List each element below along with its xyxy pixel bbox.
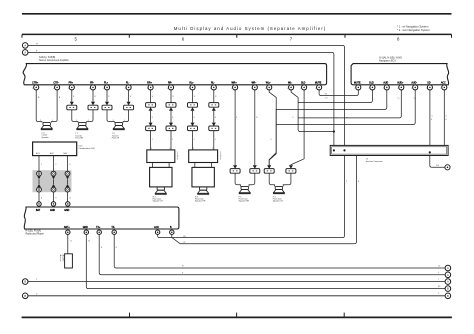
svg-text:8: 8	[346, 181, 347, 183]
svg-text:10: 10	[438, 265, 440, 267]
svg-text:4: 4	[89, 88, 90, 90]
noise filter with arrow (Front RH left)	[67, 102, 77, 110]
bottom ruler ticks	[130, 313, 345, 318]
svg-text:4: 4	[103, 88, 104, 90]
wire amp pin to noise filter (x=128.6)	[128, 90, 130, 102]
svg-text:SAU: SAU	[63, 152, 68, 155]
svg-text:CTR+: CTR+	[32, 82, 39, 84]
svg-text:*1: *1	[431, 116, 433, 118]
svg-text:Stereo Component Amplifier: Stereo Component Amplifier	[39, 59, 69, 62]
connector circle A2 (from previous page)	[22, 50, 28, 56]
svg-text:Speaker: Speaker	[42, 136, 49, 139]
tweeter speaker T 6	[112, 122, 125, 139]
svg-text:1: 1	[170, 148, 171, 150]
in-line connector upper half	[209, 103, 219, 111]
svg-text:Front LH: Front LH	[112, 137, 120, 140]
svg-text:1: 1	[212, 148, 213, 150]
svg-text:Multi Display and Audio System: Multi Display and Audio System (Separate…	[174, 26, 327, 31]
svg-text:2: 2	[193, 148, 194, 150]
center speaker C8	[41, 122, 53, 138]
svg-text:B: B	[116, 247, 117, 249]
svg-text:SD: SD	[427, 82, 431, 84]
svg-text:GND: GND	[50, 210, 55, 212]
svg-text:FL+: FL+	[104, 82, 109, 84]
noise filter front door (x=269.2)	[264, 165, 274, 173]
wire nav ACC down to junction connector	[444, 90, 447, 146]
svg-text:B: B	[24, 294, 26, 298]
svg-text:Speaker RH: Speaker RH	[239, 200, 250, 203]
svg-text:SLD: SLD	[369, 82, 374, 84]
navigation ECU N-2(A) N-3(B) block	[351, 56, 449, 85]
wire amp pin down (x=150.6)	[150, 90, 152, 103]
wire connector to speaker box	[192, 131, 194, 150]
svg-text:AUD+: AUD+	[397, 81, 404, 84]
rear door speaker assembly R 3	[147, 148, 179, 203]
svg-text:B: B	[24, 280, 26, 284]
shield ground connector circle	[445, 165, 450, 170]
gray in-line connector band	[33, 170, 72, 192]
wire combination SW pin 2 down	[53, 156, 55, 172]
connector circle A (from previous page, top)	[22, 43, 28, 49]
wire junction connector down to radio ACC feed	[158, 156, 347, 238]
wire filter to front RH speaker	[235, 173, 240, 186]
svg-text:7: 7	[438, 279, 439, 281]
svg-text:*2 B: *2 B	[325, 97, 328, 99]
svg-text:AUD: AUD	[383, 81, 388, 84]
svg-text:A: A	[447, 266, 449, 270]
svg-text:1: 1	[124, 120, 125, 122]
in-line connector lower half	[166, 123, 176, 131]
wire amp WL+ diagonal up-feed (vertical x=276.2)	[269, 90, 415, 166]
noise filter front door (x=254.8)	[250, 165, 260, 173]
svg-text:Radio and Player: Radio and Player	[26, 232, 45, 235]
tweeter speaker T 7	[75, 122, 88, 139]
connector circle B2 (bottom left)	[22, 293, 28, 299]
wire between connectors	[192, 111, 194, 123]
svg-text:*2 +: *2 +	[397, 98, 400, 100]
in-line connector lower half	[188, 123, 198, 131]
svg-text:ACC: ACC	[441, 81, 446, 84]
svg-text:WR+: WR+	[232, 82, 238, 84]
svg-text:B: B	[431, 119, 432, 121]
svg-text:4: 4	[32, 88, 33, 90]
noise filter with arrow (Front LH right)	[124, 102, 134, 110]
svg-text:2: 2	[151, 148, 152, 150]
wire connector to radio top pin	[38, 192, 40, 202]
svg-text:A: A	[24, 50, 26, 54]
wire filter to speaker terminal	[123, 110, 129, 123]
note: *1 w/ Navigation System, *2 w/o Navigation System	[397, 25, 431, 32]
junction dots inside connector	[333, 149, 431, 153]
front door speaker LH	[273, 186, 285, 202]
svg-text:B: B	[447, 287, 449, 291]
svg-text:RR+: RR+	[147, 82, 152, 84]
page top border	[22, 13, 452, 15]
svg-text:A: A	[447, 280, 449, 284]
svg-text:MUTE: MUTE	[354, 82, 361, 84]
svg-text:B: B	[215, 117, 216, 119]
wire nav SD down to junction connector	[430, 90, 433, 146]
svg-text:WL+: WL+	[266, 82, 271, 84]
wire from circle A to junction connector (net MUTE bus)	[28, 43, 345, 145]
svg-text:Speaker RH: Speaker RH	[195, 200, 206, 203]
wire connector to speaker box	[170, 131, 172, 150]
wire amp WL- diagonal to nav SLD (vertical x=298.1)	[291, 90, 401, 132]
wire bottom circle B2 across page	[28, 293, 445, 295]
wire amp pin down (x=171.0)	[170, 90, 172, 103]
svg-text:AU1: AU1	[36, 152, 40, 155]
wire between connectors	[213, 111, 215, 123]
junction dot nav4 wire joins bus	[333, 130, 335, 132]
stereo component amplifier S14(A) S15(B) block	[23, 56, 326, 85]
wire connector to radio top pin	[67, 192, 69, 202]
wire amp pin down (x=192.5)	[192, 90, 194, 103]
svg-text:Front RH: Front RH	[75, 137, 83, 140]
in-line connector pair (x=39.0)	[37, 171, 42, 192]
wire junction connector to shield ground circle	[430, 156, 445, 168]
svg-text:* 2 : w/o Navigation System: * 2 : w/o Navigation System	[397, 28, 431, 32]
top ruler line	[22, 33, 452, 35]
wire amp pin to noise filter (x=93.0)	[92, 90, 94, 102]
combination switch C10 block	[33, 142, 96, 156]
svg-text:2: 2	[76, 120, 77, 122]
svg-text:A: A	[24, 43, 26, 47]
svg-text:Speaker LH: Speaker LH	[153, 200, 164, 203]
wire filter to front RH speaker	[249, 173, 255, 186]
svg-text:*1 +: *1 +	[413, 98, 416, 100]
wire amp MUTE to navigation MUTE	[319, 90, 358, 100]
junction connector J5 block	[330, 145, 448, 163]
antenna amplifier block	[59, 254, 73, 268]
wire junction connector down to radio B feed	[172, 156, 359, 244]
svg-text:4: 4	[438, 272, 439, 274]
wire amp CTR+ to center speaker	[36, 90, 42, 123]
svg-text:GND: GND	[64, 210, 69, 212]
wire from circle A2 down to junction connector	[28, 50, 334, 145]
wire amp pin down (x=213.8)	[213, 90, 215, 103]
wire amp WR+ down to front RH filter	[234, 90, 236, 165]
wire between connectors	[170, 111, 172, 123]
ruler grid numbers 5 6 7 8	[75, 37, 401, 42]
wire filter to front LH speaker	[283, 173, 291, 186]
svg-text:A: A	[447, 273, 449, 277]
wire labels *1 *2 near nav drops	[397, 98, 416, 100]
svg-text:AUD-: AUD-	[411, 81, 417, 84]
wire filter to front LH speaker	[269, 173, 274, 186]
wire between connectors	[150, 111, 152, 123]
svg-text:2: 2	[411, 88, 412, 90]
wire filter to speaker terminal	[72, 110, 78, 123]
svg-text:RL-: RL-	[211, 82, 215, 84]
wire color labels on TX lines	[101, 247, 184, 275]
wire labels *1 *2 on bus drops	[336, 118, 348, 120]
noise filter with arrow (Front RH right)	[88, 102, 98, 110]
wire connector to speaker box	[213, 131, 215, 150]
amplifier output pins	[32, 82, 322, 90]
wire radio TX+ to page connector	[99, 235, 445, 275]
wire amp SLD pin diagonal down to front LH filter	[291, 90, 304, 165]
wire amp pin to noise filter (x=107.0)	[106, 90, 108, 102]
svg-text:4: 4	[189, 88, 190, 90]
svg-text:4: 4	[167, 88, 168, 90]
svg-text:B: B	[447, 294, 449, 298]
svg-text:ACC: ACC	[154, 226, 159, 229]
svg-text:B: B	[446, 119, 447, 121]
svg-text:SLD: SLD	[301, 82, 306, 84]
svg-text:WL-: WL-	[288, 82, 292, 84]
noise filter with arrow (Front LH left)	[102, 102, 112, 110]
svg-text:Combination SW: Combination SW	[78, 147, 95, 150]
top ruler ticks	[22, 34, 452, 37]
svg-text:*1: *1	[336, 118, 338, 120]
svg-text:B: B	[172, 117, 173, 119]
wire connector to speaker box	[150, 131, 152, 150]
wire color labels B B	[38, 97, 61, 122]
wire amp CTR- to center speaker	[51, 90, 57, 123]
svg-text:ANT+: ANT+	[64, 226, 71, 229]
svg-text:CTR-: CTR-	[53, 82, 59, 84]
in-line connector lower half	[209, 123, 219, 131]
radio bottom pins	[64, 226, 174, 234]
svg-text:Navigation ECU: Navigation ECU	[379, 59, 396, 62]
wire amp pin to noise filter (x=71.8)	[71, 90, 73, 102]
svg-text:BAT: BAT	[36, 209, 41, 212]
in-line connector upper half	[146, 103, 156, 111]
svg-text:TX+: TX+	[96, 227, 101, 229]
wire nav AUD line down to front LH filter	[269, 109, 276, 165]
svg-text:Amplifier: Amplifier	[62, 255, 65, 262]
wire connector to radio top pin	[53, 192, 55, 202]
svg-text:2: 2	[113, 120, 114, 122]
rear door speaker assembly R 4	[189, 148, 222, 203]
svg-text:* 1 : w/ Navigation System: * 1 : w/ Navigation System	[397, 25, 429, 29]
in-line connector pair (x=53.5)	[51, 171, 56, 192]
svg-text:6: 6	[56, 164, 57, 166]
radio and player R-1(B) R-5(A) block	[24, 207, 179, 235]
svg-text:2: 2	[40, 120, 41, 122]
noise filter front door (x=290.9)	[286, 165, 296, 173]
wire radio ANT+ to antenna amplifier	[68, 235, 73, 254]
right edge page connectors	[438, 265, 451, 298]
svg-text:4: 4	[265, 88, 266, 90]
svg-text:TX-: TX-	[111, 227, 115, 229]
svg-text:WR-: WR-	[252, 82, 257, 84]
noise filter front door (x=235.1)	[230, 165, 240, 173]
svg-text:4: 4	[41, 164, 42, 166]
svg-text:AU2: AU2	[50, 152, 54, 155]
page bottom border	[22, 316, 452, 318]
svg-text:1: 1	[88, 120, 89, 122]
svg-text:MUTE: MUTE	[315, 82, 322, 84]
svg-text:*2: *2	[346, 118, 348, 120]
svg-text:B: B	[194, 117, 195, 119]
svg-text:E: E	[56, 197, 57, 199]
wire color labels GR LR on radio feeds	[183, 236, 186, 244]
in-line connector lower half	[146, 123, 156, 131]
svg-text:Junction Connector: Junction Connector	[366, 160, 384, 163]
svg-text:FR+: FR+	[69, 82, 74, 84]
radio top pins BAT GND GND	[36, 202, 70, 212]
front door speaker RH	[239, 186, 251, 202]
svg-text:B: B	[236, 117, 237, 119]
svg-text:RR-: RR-	[168, 82, 172, 84]
svg-text:FL-: FL-	[126, 82, 130, 84]
svg-text:Antenna: Antenna	[59, 255, 62, 262]
wire radio GND to page connector	[86, 235, 445, 289]
svg-text:B: B	[358, 181, 359, 183]
wire filter to speaker terminal	[107, 110, 115, 123]
svg-text:Speaker LH: Speaker LH	[273, 200, 284, 203]
wire filter to speaker terminal	[87, 110, 93, 123]
svg-text:1: 1	[52, 120, 53, 122]
in-line connector pair (x=67.5)	[65, 171, 70, 192]
connector circle B (to other page, bottom left)	[22, 279, 28, 285]
in-line connector upper half	[166, 103, 176, 111]
wire amp WR- down to front RH filter	[254, 90, 256, 165]
wire radio TX- to page connector	[114, 235, 445, 268]
svg-text:4: 4	[152, 139, 153, 141]
svg-text:B: B	[152, 117, 153, 119]
svg-text:*2: *2	[446, 116, 448, 118]
wire combination SW pin 3 down	[67, 156, 69, 172]
in-line connector upper half	[188, 103, 198, 111]
svg-text:FR-: FR-	[90, 82, 94, 84]
wire bottom circle B across page	[28, 279, 445, 281]
svg-text:GND: GND	[83, 227, 88, 229]
svg-text:RL+: RL+	[189, 82, 194, 84]
navigation ECU pins	[354, 81, 447, 90]
wire combination SW pin 1 down	[38, 156, 40, 172]
